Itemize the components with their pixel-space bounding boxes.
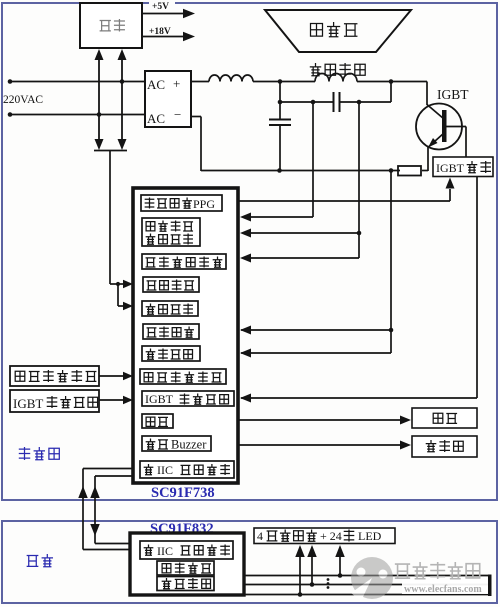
block 类IIC通讯接口 panel bbox=[140, 541, 233, 559]
gate drive vertical bbox=[449, 189, 451, 201]
terminal dot L2 bbox=[8, 112, 13, 117]
IIC wire A vertical bbox=[82, 469, 84, 550]
junction mid x359 bbox=[357, 100, 362, 105]
LED wire 2 bbox=[311, 556, 313, 585]
arrowhead into chip 锅底 bbox=[123, 372, 133, 381]
collector wire down bbox=[426, 82, 428, 106]
junction mid x313 bbox=[311, 100, 316, 105]
text 过压保护 bbox=[146, 304, 193, 315]
buzzer box 蜂鸣器 bbox=[412, 436, 477, 457]
text 锅底温度检测 bbox=[15, 370, 96, 382]
wire coil to IGBT node bbox=[357, 81, 391, 83]
wire pot temp to chip bbox=[99, 375, 124, 377]
text 蜂鸣器 bbox=[426, 440, 463, 452]
text 电压检测 bbox=[147, 280, 195, 291]
junction top x280 bbox=[278, 79, 283, 84]
wire x280 down bbox=[279, 82, 281, 120]
wire down x359 bbox=[358, 233, 360, 258]
text 过流保护 bbox=[146, 349, 193, 360]
wire to coil bbox=[253, 81, 315, 83]
svg-text:www.elecfans.com: www.elecfans.com bbox=[404, 584, 482, 595]
text 电源 bbox=[100, 19, 125, 32]
emitter diagonal bbox=[429, 133, 444, 147]
svg-text:IGBT: IGBT bbox=[436, 161, 465, 175]
block 同步检测移相处理 bbox=[142, 218, 200, 246]
driver box IGBT驱动 bbox=[433, 157, 493, 177]
svg-text:Buzzer: Buzzer bbox=[171, 438, 207, 452]
block 显示驱动 bbox=[157, 561, 214, 575]
fan arrowhead bbox=[400, 416, 411, 425]
block 风扇 bbox=[142, 414, 173, 428]
sensor box IGBT温度检测 bbox=[10, 390, 99, 412]
wire to 电压检测 bbox=[110, 283, 124, 285]
wire down x118 bbox=[117, 284, 119, 306]
IIC arrowhead up B bbox=[90, 486, 100, 498]
wire AC+ out bbox=[191, 81, 209, 83]
resistor R1 shunt bbox=[398, 166, 421, 176]
arrowhead into 电流检测 bbox=[240, 326, 251, 335]
base wire down to driver bbox=[465, 127, 467, 158]
text 励磁线圈 bbox=[310, 63, 365, 76]
wire to 反压自动调节 bbox=[245, 257, 359, 259]
block 过流保护 bbox=[142, 346, 200, 361]
+5V wire bbox=[142, 13, 184, 15]
block 触摸按键 bbox=[157, 577, 214, 591]
svg-text:IGBT: IGBT bbox=[437, 87, 469, 102]
text 驱动 bbox=[467, 161, 491, 173]
junction x359 y233 bbox=[357, 231, 362, 236]
base wire right bbox=[446, 126, 466, 128]
arrowhead into 移相处理 bbox=[240, 229, 251, 238]
mains line L2 bbox=[10, 114, 145, 116]
cooking pot 烹饪锅 bbox=[265, 10, 411, 52]
junction bus1 x340 bbox=[338, 573, 343, 578]
collector bar wire y150 bbox=[94, 150, 127, 152]
IIC arrowhead down B bbox=[90, 524, 100, 536]
svg-text:AC: AC bbox=[147, 77, 165, 92]
current sense vertical bbox=[390, 171, 392, 331]
capacitor C1 plate bottom bbox=[269, 124, 291, 126]
block 电流检测 bbox=[143, 324, 199, 339]
arrowhead into 反压自动调节 bbox=[240, 254, 251, 263]
block IGBT温度检测 bbox=[142, 391, 234, 406]
display bus wire 3 bbox=[244, 594, 490, 596]
text 通讯接口 panel bbox=[181, 545, 230, 556]
junction x118 bbox=[116, 282, 120, 286]
wire resistor to emitter bbox=[422, 170, 428, 172]
wire to 电流检测 bbox=[241, 329, 391, 331]
text 同步检测 bbox=[146, 221, 193, 232]
block 功率控制PPG bbox=[141, 195, 222, 211]
text 个 bbox=[344, 530, 355, 542]
arrowhead into driver bbox=[446, 178, 455, 189]
buzzer wire bbox=[238, 444, 401, 446]
filter inductor L1 bbox=[209, 75, 253, 82]
svg-text:IGBT: IGBT bbox=[145, 392, 174, 406]
capacitor C1 plate top bbox=[269, 119, 291, 121]
rectifier box AC bbox=[145, 71, 191, 127]
+5V arrowhead bbox=[183, 9, 195, 19]
driver to temp wire vertical bbox=[476, 177, 478, 399]
power supply box 电源 bbox=[80, 3, 142, 48]
arrowhead into 电压检测 bbox=[123, 280, 133, 289]
wire x122 vertical bbox=[121, 60, 123, 140]
arrowhead into IGBT温度检测 bbox=[240, 394, 251, 403]
IIC wire B vertical bbox=[94, 476, 96, 544]
capacitor C2 plate right bbox=[339, 92, 341, 112]
text 功率板 bbox=[19, 447, 60, 460]
text 烹饪锅 bbox=[311, 22, 358, 37]
current rail bbox=[201, 170, 400, 172]
arrowhead into 同步检测 bbox=[240, 213, 251, 222]
IIC wire B horizontal bbox=[95, 475, 133, 477]
text 触摸按键 bbox=[162, 578, 211, 589]
arrowhead down x122 bbox=[118, 139, 127, 150]
display bus wire 1 bbox=[244, 575, 490, 577]
block 电压检测 bbox=[143, 277, 199, 292]
display bus end bar bbox=[488, 575, 492, 597]
text 温度检测 inner bbox=[180, 394, 229, 405]
svg-text:+5V: +5V bbox=[152, 2, 169, 12]
block 类IIC通讯接口 bbox=[140, 461, 234, 478]
terminal dot L1 bbox=[8, 79, 13, 84]
block 报警Buzzer bbox=[142, 436, 211, 451]
+18V arrowhead bbox=[183, 32, 195, 42]
buzzer arrowhead bbox=[400, 441, 411, 450]
junction rail x280 bbox=[277, 168, 282, 173]
+18V wire bbox=[142, 36, 184, 38]
MCU U2 SC91F832 outline bbox=[130, 533, 244, 595]
IIC arrowhead up A bbox=[78, 486, 88, 498]
text 温度检测 left box bbox=[47, 396, 98, 408]
svg-text:IGBT: IGBT bbox=[13, 396, 43, 411]
svg-text:SC91F738: SC91F738 bbox=[151, 485, 215, 501]
tap vertical x359 bbox=[358, 102, 360, 233]
arrowhead into 过流保护 bbox=[240, 349, 251, 358]
junction bus3 x300 bbox=[298, 592, 303, 597]
panel board frame bbox=[2, 521, 497, 603]
IIC wire A horizontal bbox=[83, 468, 133, 470]
text 类 panel bbox=[144, 545, 154, 556]
wire to 过流保护 bbox=[241, 352, 391, 354]
text 报警 bbox=[146, 439, 168, 450]
gate drive wire bbox=[238, 200, 450, 202]
svg-text:PPG: PPG bbox=[193, 197, 215, 211]
capacitor C2 plate left bbox=[333, 92, 335, 112]
fan wire bbox=[238, 419, 401, 421]
AC- wire down bbox=[200, 117, 202, 172]
emitter wire down bbox=[427, 147, 429, 172]
junction rail x391 bbox=[389, 168, 394, 173]
svg-text:AC: AC bbox=[147, 111, 165, 126]
svg-text:+: + bbox=[173, 76, 180, 91]
text 面板 bbox=[27, 554, 53, 567]
wire to IGBT温度检测 bbox=[241, 397, 477, 399]
block 过压保护 bbox=[142, 301, 198, 316]
junction L1-x122 bbox=[120, 79, 125, 84]
junction top x391 bbox=[389, 79, 394, 84]
+5V label bg bbox=[149, 0, 175, 11]
collector diagonal bbox=[427, 105, 444, 120]
IIC wire B bottom bbox=[95, 543, 133, 545]
wire to 移相处理 bbox=[245, 232, 359, 234]
svg-text:IIC: IIC bbox=[157, 463, 173, 477]
ellipsis dots bbox=[327, 578, 330, 589]
svg-text:IIC: IIC bbox=[157, 544, 173, 558]
arrowhead into 过压保护 bbox=[123, 302, 133, 311]
fan box 风扇 bbox=[412, 408, 477, 428]
LED arrowhead 3 bbox=[335, 545, 345, 557]
LED arrowhead 1 bbox=[295, 545, 305, 557]
text 功率控制 bbox=[145, 198, 192, 209]
watermark url bg bbox=[402, 577, 489, 594]
junction bus2 x312 bbox=[310, 582, 315, 587]
junction L2-x99 bbox=[97, 112, 102, 117]
text 风扇 inner bbox=[146, 417, 168, 426]
watermark logo bbox=[351, 557, 393, 601]
block 锅底温度检测 bbox=[140, 369, 226, 384]
mains line L1 bbox=[10, 81, 145, 83]
svg-text:220VAC: 220VAC bbox=[3, 94, 43, 106]
excitation coil 励磁线圈 bbox=[315, 74, 357, 82]
svg-text:4: 4 bbox=[257, 529, 263, 543]
wire to 同步检测 bbox=[245, 216, 313, 218]
transistor Q1 circle bbox=[416, 104, 462, 150]
svg-text:+18V: +18V bbox=[149, 27, 171, 37]
arrowhead down x99 bbox=[95, 139, 104, 150]
wire x391 tank right side bbox=[390, 82, 392, 103]
junction x391 y330 bbox=[389, 328, 394, 333]
text 位数码管 bbox=[267, 530, 317, 542]
LED arrowhead 2 bbox=[307, 545, 317, 557]
text 反压自动调节 bbox=[146, 257, 223, 268]
wire to 过压保护 bbox=[118, 305, 124, 307]
text 移相处理 bbox=[146, 234, 193, 245]
sensor box 锅底温度检测 bbox=[10, 366, 99, 386]
sync tap vertical x313 bbox=[312, 102, 314, 217]
display bus wire 2 bbox=[244, 584, 490, 586]
emitter arrowhead bbox=[428, 138, 438, 148]
text 通讯接口 bbox=[181, 464, 230, 475]
wire down to 过流保护 row bbox=[390, 330, 392, 353]
transistor base bar bbox=[442, 110, 447, 142]
junction mid x280 bbox=[278, 100, 283, 105]
block 反压自动调节 bbox=[142, 254, 226, 269]
display box 4位数码管+24个LED bbox=[254, 528, 395, 544]
tank mid wire left bbox=[280, 101, 333, 103]
IIC wire A bottom bbox=[83, 549, 133, 551]
wire x99 vertical bbox=[98, 60, 100, 140]
arrowhead up x99 bbox=[95, 49, 104, 60]
text 锅底温度检测 inner bbox=[144, 372, 221, 383]
arrowhead into chip IGBT温度 bbox=[123, 396, 133, 405]
text 风扇 bbox=[433, 413, 457, 423]
wire x280 to rail bbox=[279, 125, 281, 171]
tank mid wire right bbox=[340, 101, 391, 103]
LED wire 3 bbox=[339, 556, 341, 576]
LED wire 1 bbox=[299, 556, 301, 595]
svg-text:+ 24: + 24 bbox=[320, 529, 342, 543]
text 显示驱动 bbox=[162, 563, 211, 574]
voltage sense vertical x110 bbox=[109, 151, 111, 285]
svg-text:−: − bbox=[174, 107, 181, 122]
text 类 bbox=[144, 464, 154, 475]
collector wire top bbox=[391, 81, 427, 83]
AC- out wire bbox=[191, 116, 201, 118]
wire IGBT temp to chip bbox=[99, 399, 124, 401]
text 电流检测 bbox=[147, 327, 194, 338]
watermark 电子发烧友 bbox=[395, 562, 480, 579]
MCU U1 SC91F738 outline bbox=[133, 188, 238, 483]
svg-text:LED: LED bbox=[358, 529, 382, 543]
arrowhead up x122 bbox=[118, 49, 127, 60]
